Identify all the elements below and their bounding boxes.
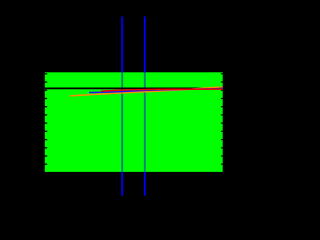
red curve [101,89,223,91]
green band (filled region) [45,72,223,172]
black horizontal reference line [45,87,223,89]
axvline 2 segment inside green (teal blend) [144,72,146,172]
y-axis minor ticks, left edge [45,74,47,164]
axvline 1 outer segments (blue) [121,17,123,73]
axvline 2 outer segments (blue) [144,17,146,73]
y-axis minor ticks, right edge [221,74,223,164]
blue curve [89,88,223,92]
axvline 1 segment inside green (teal blend) [121,72,123,172]
orange curve [70,87,223,96]
